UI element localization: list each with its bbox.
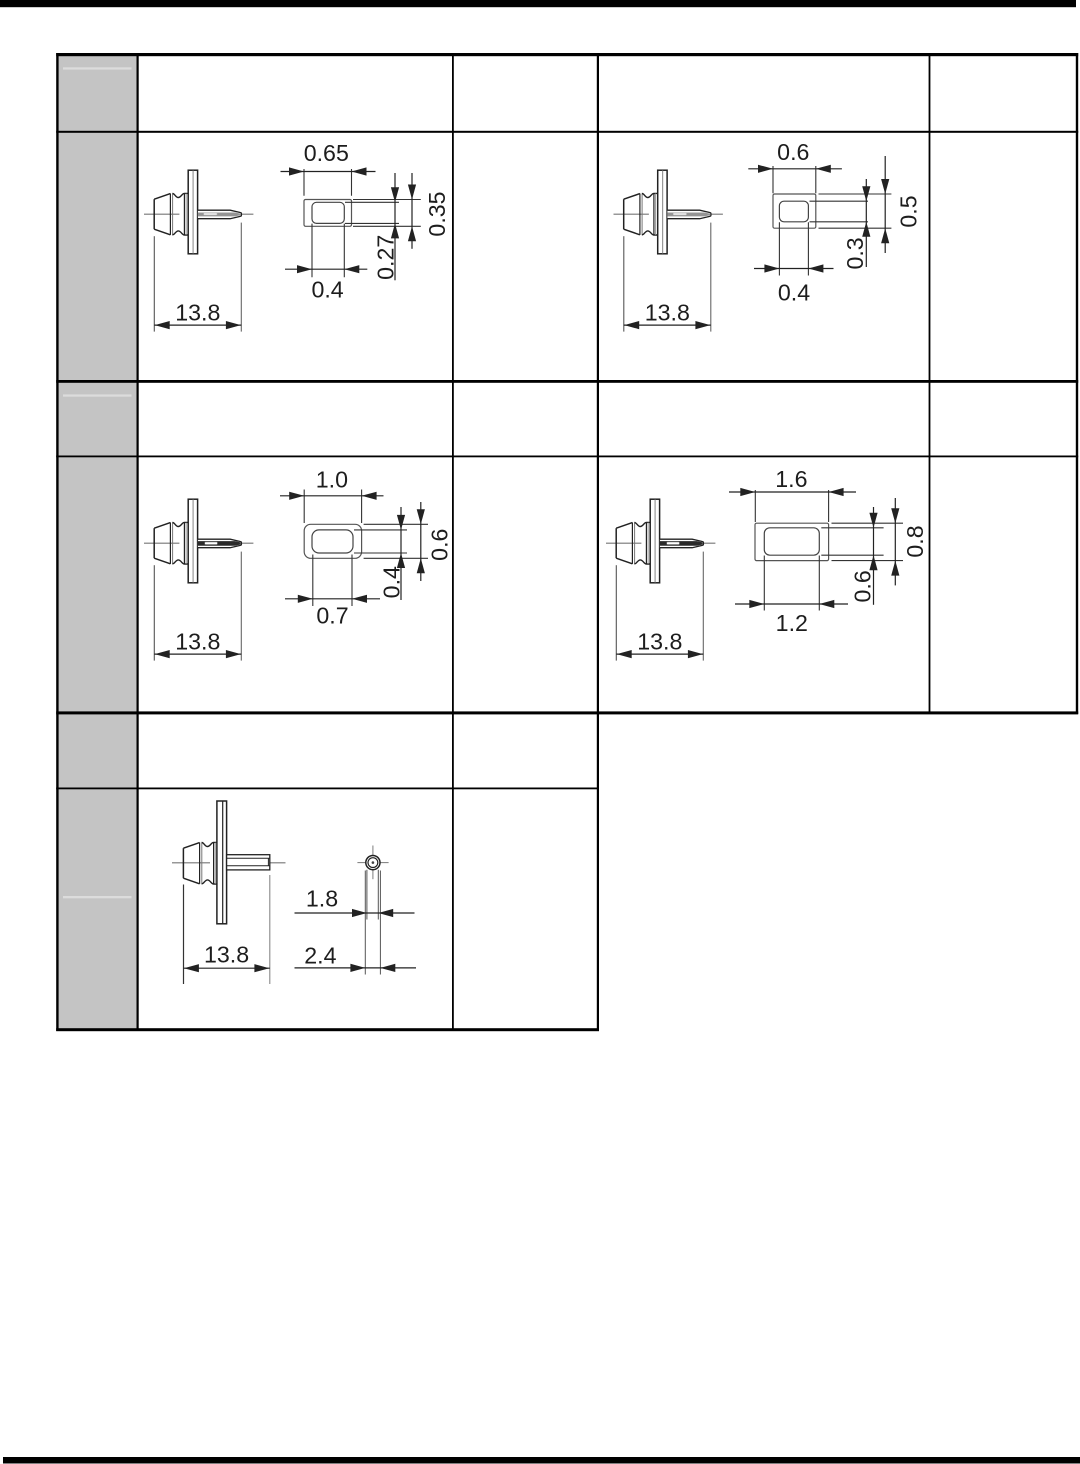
dimension 0.35 extension lines — [353, 200, 421, 227]
inner cross-section rect — [764, 528, 819, 555]
vertical divider x929 — [929, 53, 931, 714]
post edge extension lines — [367, 870, 378, 920]
dimension 0.5 extension lines — [819, 194, 892, 228]
dimension 0.35 line — [411, 173, 413, 249]
pin side view row4 right — [606, 499, 715, 660]
dimension 1.0 line — [280, 495, 384, 497]
vertical divider x453 — [452, 53, 454, 1031]
bottom black footer bar — [3, 1457, 1080, 1464]
outer cross-section rect — [755, 523, 829, 560]
dimension 0.6 extension lines — [773, 166, 816, 193]
dimension 0.6 extension lines — [364, 524, 428, 558]
dimension 0.27 line — [394, 173, 396, 280]
svg-text:0.6: 0.6 — [777, 139, 809, 165]
dimension 1.2 line — [735, 603, 848, 605]
dimension 1.6 line — [729, 491, 856, 493]
dimension 0.4 extension lines — [312, 224, 344, 278]
svg-text:0.65: 0.65 — [304, 140, 349, 166]
top black header bar — [0, 0, 1076, 7]
svg-text:0.4: 0.4 — [379, 566, 405, 598]
dimension 0.27 extension lines — [345, 202, 399, 223]
dimension 0.5 line — [884, 156, 886, 253]
svg-text:0.8: 0.8 — [902, 525, 928, 557]
front view row4 left (1.0 x 0.6 blade) — [280, 467, 452, 629]
table grid — [56, 53, 1078, 1031]
dimension 2.4 — [295, 967, 417, 969]
dimension 0.65 extension lines — [304, 169, 352, 196]
dimension 0.6 line — [873, 507, 875, 605]
row6 drawing: pin with tall plate and round post — [172, 801, 416, 984]
inner cross-section rect — [779, 201, 808, 222]
inner cross-section rect — [312, 530, 353, 553]
pin side view row2 right — [614, 170, 723, 331]
13.8 dimension — [183, 885, 185, 985]
svg-text:2.4: 2.4 — [304, 942, 336, 968]
svg-text:1.0: 1.0 — [316, 467, 348, 493]
front view circle — [372, 846, 374, 880]
pin side view row2 left — [144, 170, 253, 331]
outer cross-section rect — [773, 194, 816, 228]
round post — [227, 855, 270, 870]
dimension 0.7 extension lines — [313, 555, 352, 607]
svg-text:0.6: 0.6 — [426, 529, 452, 561]
dimension 0.4 extension lines — [779, 222, 808, 275]
dimension 0.6 line — [748, 168, 842, 170]
horizontal divider y788 left half — [56, 788, 598, 790]
dimension 0.6 extension lines — [821, 528, 883, 555]
outer cross-section rect — [304, 200, 352, 227]
dimension 0.4 line — [285, 268, 367, 270]
top border — [56, 53, 1078, 56]
centerline — [172, 862, 286, 864]
dimension 1.2 extension lines — [764, 556, 819, 611]
horizontal divider y456 — [56, 456, 1078, 458]
horizontal divider y131 — [56, 131, 1078, 133]
dimension 0.4 line — [754, 268, 834, 270]
vertical divider x137 — [137, 53, 139, 1031]
svg-text:1.8: 1.8 — [306, 885, 338, 911]
bulb — [183, 842, 217, 884]
dimension 0.4 extension lines — [354, 530, 407, 553]
outer cross-section rect — [304, 524, 361, 558]
faint redacted text line row3 gray cell — [63, 394, 132, 396]
bottom border of left half — [56, 1028, 599, 1031]
dimension 0.3 extension lines — [810, 201, 869, 222]
faint redacted text line row6 gray cell — [63, 896, 132, 898]
svg-text:0.6: 0.6 — [850, 570, 876, 602]
svg-text:0.7: 0.7 — [316, 602, 348, 628]
pin side view row4 left — [144, 499, 253, 660]
right border — [1076, 53, 1078, 714]
svg-text:13.8: 13.8 — [204, 941, 249, 967]
front view row4 right (1.6 x 0.8 blade) — [729, 466, 928, 636]
dimension 0.8 extension lines — [832, 523, 904, 560]
horizontal divider y381 thick — [56, 380, 1078, 383]
faint redacted text line row1 gray cell — [63, 67, 132, 69]
front view row2 right (0.6 x 0.5 blade) — [748, 139, 921, 305]
dimension 0.4 line — [400, 507, 402, 600]
svg-text:0.27: 0.27 — [373, 235, 399, 280]
dimension 0.8 line — [894, 498, 896, 585]
dimension 1.0 extension lines — [304, 490, 361, 524]
dimension 1.8 — [295, 912, 415, 914]
horizontal divider y713 thick — [56, 711, 1078, 714]
svg-text:0.4: 0.4 — [778, 280, 810, 306]
dimension 0.7 line — [285, 598, 380, 600]
left border — [56, 53, 58, 1031]
dimension 0.6 line — [420, 502, 422, 581]
svg-text:0.5: 0.5 — [896, 195, 922, 227]
dimension 0.65 line — [281, 171, 376, 173]
svg-text:1.6: 1.6 — [775, 466, 807, 492]
vertical divider x597 — [597, 53, 599, 1031]
table left gray label column fill — [57, 55, 138, 1030]
svg-text:0.3: 0.3 — [842, 237, 868, 269]
svg-text:0.35: 0.35 — [424, 191, 450, 236]
svg-text:0.4: 0.4 — [311, 277, 343, 303]
front view row2 left (0.65 x 0.35 blade) — [281, 140, 450, 303]
dimension 0.3 line — [865, 179, 867, 267]
tall plate — [217, 801, 227, 924]
svg-text:1.2: 1.2 — [776, 610, 808, 636]
dimension 1.6 extension lines — [755, 490, 828, 522]
inner cross-section rect — [312, 202, 344, 223]
